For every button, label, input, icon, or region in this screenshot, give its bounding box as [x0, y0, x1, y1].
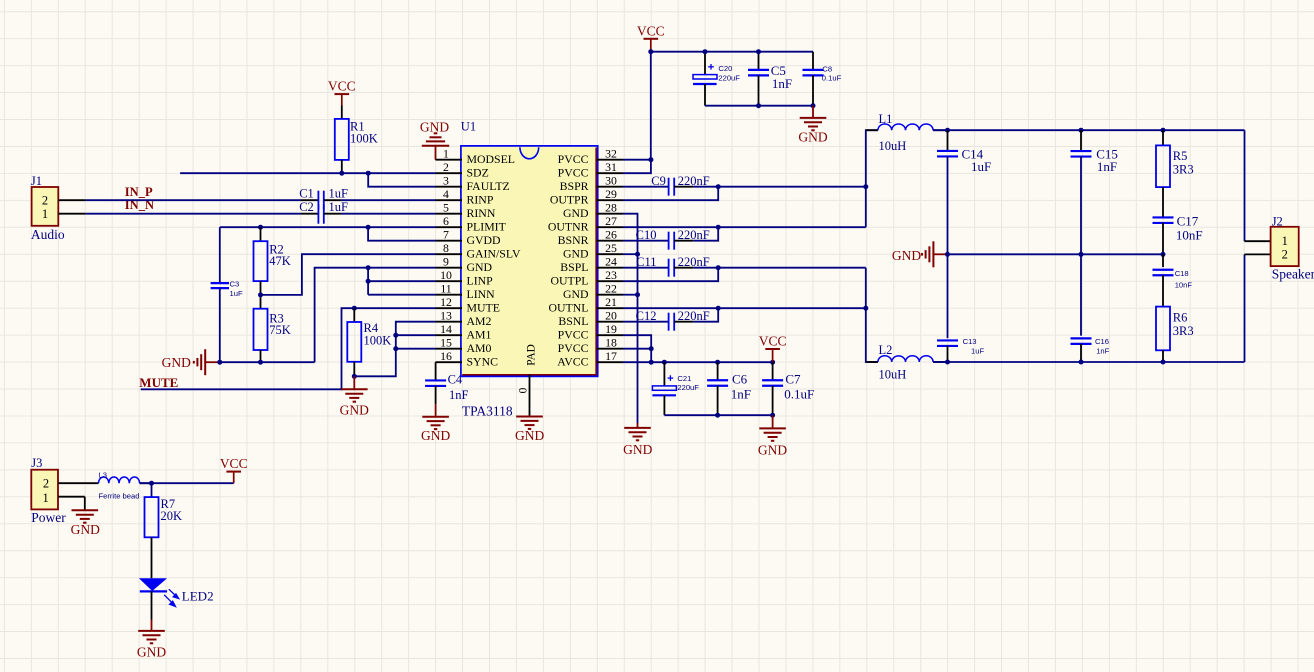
junction pin18 — [649, 346, 654, 351]
svg-text:15: 15 — [440, 336, 452, 350]
svg-text:1uF: 1uF — [971, 159, 991, 174]
pin 6 (PLIMIT) — [436, 214, 507, 233]
svg-text:GND: GND — [421, 428, 450, 443]
wire to J2 pin1 — [1245, 130, 1271, 241]
svg-text:AVCC: AVCC — [557, 354, 588, 368]
svg-text:100K: 100K — [350, 132, 378, 146]
wire GND row — [219, 361, 315, 363]
svg-text:2: 2 — [443, 160, 449, 174]
wire LINP-LINN tie — [367, 268, 369, 295]
wire R4 bottom — [353, 362, 355, 377]
svg-text:1: 1 — [42, 491, 48, 505]
junction C21 top — [662, 360, 667, 365]
junction C6 top — [715, 360, 720, 365]
wire AVCC row — [623, 361, 773, 363]
junction C13 bottom — [945, 360, 950, 365]
capacitor C17 — [1153, 213, 1203, 242]
wire AM1 row — [396, 334, 436, 336]
svg-text:J1: J1 — [31, 174, 42, 188]
wire R3 bottom — [260, 350, 262, 362]
svg-text:C13: C13 — [963, 337, 977, 346]
wire R2-R3 node — [260, 281, 262, 309]
svg-text:25: 25 — [605, 241, 617, 255]
svg-text:13: 13 — [440, 309, 452, 323]
svg-text:2: 2 — [1282, 247, 1288, 261]
svg-text:LED2: LED2 — [182, 589, 214, 604]
svg-text:2: 2 — [42, 193, 48, 207]
svg-text:U1: U1 — [461, 120, 476, 134]
wire LINP row — [368, 280, 435, 282]
junction R6 bottom — [1161, 360, 1166, 365]
svg-text:AM1: AM1 — [467, 327, 492, 341]
svg-text:10uH: 10uH — [879, 139, 907, 153]
svg-text:1nF: 1nF — [731, 387, 751, 402]
resistor R3 — [254, 309, 291, 350]
wire OUTNR row — [623, 226, 866, 228]
wire C17 to mid — [1162, 223, 1164, 254]
svg-text:R5: R5 — [1173, 149, 1188, 163]
svg-text:26: 26 — [605, 228, 617, 242]
wire C2 to RINN — [324, 213, 436, 215]
svg-text:GVDD: GVDD — [467, 233, 502, 247]
pin 1 (MODSEL) — [436, 147, 516, 166]
svg-text:4: 4 — [443, 187, 449, 201]
wire R7 top pin — [151, 483, 153, 497]
junction pin17 — [649, 360, 654, 365]
pin 24 (BSPL) — [560, 255, 623, 274]
wire AVCC return — [664, 414, 772, 416]
svg-text:0.1uF: 0.1uF — [822, 73, 842, 82]
svg-text:3R3: 3R3 — [1173, 162, 1194, 176]
svg-text:1: 1 — [42, 207, 48, 221]
inductor L2 — [867, 343, 947, 381]
pin 16 (SYNC) — [436, 349, 499, 368]
svg-text:17: 17 — [605, 349, 617, 363]
junction R7 top — [149, 481, 154, 486]
pin 28 (GND) — [563, 201, 623, 220]
svg-text:LINP: LINP — [467, 273, 494, 287]
junction OUTNR-C10 — [716, 225, 721, 230]
svg-text:GND: GND — [71, 522, 100, 537]
wire AM pins tie — [354, 322, 435, 377]
wire IN_P — [86, 199, 318, 201]
junction LINP — [366, 279, 371, 284]
svg-text:PVCC: PVCC — [558, 327, 589, 341]
svg-text:L2: L2 — [879, 343, 893, 357]
svg-text:VCC: VCC — [637, 23, 665, 38]
junction C9-OUTPR — [716, 184, 721, 189]
svg-text:LINN: LINN — [467, 287, 496, 301]
junction C7 top — [770, 360, 775, 365]
svg-text:18: 18 — [605, 336, 617, 350]
svg-text:1nF: 1nF — [1097, 159, 1117, 174]
svg-text:2: 2 — [43, 477, 49, 491]
pin 17 (AVCC) — [557, 349, 623, 368]
power VCC (R1) — [328, 79, 356, 106]
svg-text:10uH: 10uH — [879, 368, 907, 382]
capacitor C13 — [937, 254, 984, 362]
svg-text:MUTE: MUTE — [139, 375, 178, 390]
svg-text:GAIN/SLV: GAIN/SLV — [467, 246, 521, 260]
svg-text:C12: C12 — [636, 309, 657, 323]
pin 22 (GND) — [563, 282, 623, 301]
ground (PAD) — [515, 417, 544, 444]
svg-text:GND: GND — [623, 442, 652, 457]
wire MUTE — [141, 308, 436, 389]
svg-text:9: 9 — [443, 255, 449, 269]
svg-text:C9: C9 — [651, 174, 666, 188]
svg-text:1nF: 1nF — [772, 76, 792, 91]
wire SYNC to C4 — [435, 362, 437, 380]
pin 23 (OUTPL) — [550, 268, 623, 287]
ground (pin1 MODSEL) — [420, 119, 449, 145]
wire VCC rail — [651, 51, 813, 53]
capacitor C5 — [748, 52, 792, 106]
svg-text:16: 16 — [440, 349, 452, 363]
svg-text:J2: J2 — [1272, 214, 1283, 228]
svg-text:IN_P: IN_P — [125, 185, 153, 199]
junction R1-SDZ — [339, 171, 344, 176]
connector J2 — [1271, 214, 1314, 281]
svg-text:C10: C10 — [636, 228, 657, 242]
svg-text:23: 23 — [605, 268, 617, 282]
svg-text:28: 28 — [605, 201, 617, 215]
junction C11-OUTPL — [716, 265, 721, 270]
svg-text:GND: GND — [563, 206, 589, 220]
capacitor C18 — [1153, 254, 1193, 289]
svg-text:75K: 75K — [269, 323, 291, 337]
svg-text:OUTNR: OUTNR — [548, 219, 589, 233]
svg-text:GND: GND — [340, 402, 369, 417]
pin 11 (LINN) — [436, 282, 496, 301]
svg-text:8: 8 — [443, 241, 449, 255]
svg-text:BSNL: BSNL — [558, 314, 588, 328]
svg-text:1: 1 — [1282, 234, 1288, 248]
pin 12 (MUTE) — [436, 295, 500, 314]
svg-text:BSPL: BSPL — [560, 260, 588, 274]
wire L2 out — [933, 361, 1244, 363]
capacitor C15 — [1071, 130, 1118, 254]
resistor R5 — [1156, 130, 1194, 187]
pin 21 (OUTNL) — [549, 295, 623, 314]
capacitor C7 — [762, 362, 814, 415]
svg-text:20K: 20K — [161, 509, 183, 523]
pin 26 (BSNR) — [558, 228, 623, 247]
svg-text:VCC: VCC — [759, 334, 787, 349]
svg-text:GND: GND — [758, 442, 787, 457]
svg-text:C1: C1 — [299, 187, 314, 201]
pin 4 (RINP) — [436, 187, 494, 206]
wire AM0 row — [396, 348, 436, 350]
wire FAULTZ jog — [368, 173, 435, 187]
svg-text:20: 20 — [605, 309, 617, 323]
wire R4 top pin — [353, 308, 355, 322]
svg-text:C17: C17 — [1177, 213, 1199, 228]
wire decoupling return — [705, 105, 813, 107]
pin 13 (AM2) — [436, 309, 492, 328]
junction C6 bottom — [715, 413, 720, 418]
pin 29 (OUTPR) — [550, 187, 623, 206]
svg-text:32: 32 — [605, 147, 617, 161]
wire node to GAIN — [261, 254, 436, 295]
svg-text:30: 30 — [605, 174, 617, 188]
capacitor C6 — [707, 362, 751, 415]
junction R2-R3 — [258, 292, 263, 297]
ground (C4) — [421, 417, 450, 444]
wire IC GND net — [623, 214, 638, 423]
svg-text:11: 11 — [440, 282, 451, 296]
svg-text:RINP: RINP — [467, 192, 494, 206]
svg-text:220uF: 220uF — [718, 73, 740, 82]
svg-text:C7: C7 — [785, 372, 801, 387]
wire VCC to R1 — [341, 106, 343, 119]
svg-text:PVCC: PVCC — [558, 341, 589, 355]
junction OUTP rail — [863, 184, 868, 189]
svg-text:MODSEL: MODSEL — [467, 152, 516, 166]
wire OUTPL net — [623, 268, 866, 282]
wire C12 to OUTNL — [693, 308, 718, 322]
pin 31 (PVCC) — [558, 160, 623, 179]
svg-text:21: 21 — [605, 295, 617, 309]
wire LED cathode — [151, 591, 153, 619]
svg-text:Ferrite bead: Ferrite bead — [99, 492, 140, 501]
pin 7 (GVDD) — [436, 228, 502, 247]
svg-text:12: 12 — [440, 295, 452, 309]
pin 15 (AM0) — [436, 336, 492, 355]
svg-text:C16: C16 — [1095, 337, 1109, 346]
wire C18 to R6 — [1162, 275, 1164, 306]
svg-text:24: 24 — [605, 255, 617, 269]
svg-text:GND: GND — [798, 130, 827, 145]
svg-text:100K: 100K — [364, 333, 392, 347]
svg-text:10nF: 10nF — [1176, 227, 1203, 242]
svg-text:GND: GND — [467, 260, 493, 274]
svg-text:OUTPR: OUTPR — [550, 192, 589, 206]
wire PVCC tie — [623, 160, 651, 174]
svg-text:J3: J3 — [31, 456, 42, 470]
junction AM1 — [393, 333, 398, 338]
pin 14 (AM1) — [436, 322, 492, 341]
resistor R4 — [347, 321, 391, 362]
wire L3 to VCC — [140, 482, 234, 484]
IC name TPA3118 — [462, 403, 513, 418]
pin 25 (GND) — [563, 241, 623, 260]
wire PVCC tie 19-18-17 — [623, 335, 651, 362]
capacitor C14 — [937, 130, 991, 254]
junction OUTN rail — [863, 306, 868, 311]
resistor R2 — [254, 241, 291, 281]
wire GND to pin1 — [435, 146, 437, 160]
svg-text:GND: GND — [420, 119, 449, 134]
junction C7 bottom — [770, 413, 775, 418]
wire C3 to GND row — [219, 288, 221, 362]
svg-text:GND: GND — [563, 246, 589, 260]
svg-text:PVCC: PVCC — [558, 165, 589, 179]
svg-text:GND: GND — [162, 355, 191, 370]
svg-text:10nF: 10nF — [1175, 280, 1193, 289]
capacitor C1 — [299, 187, 348, 210]
svg-text:PVCC: PVCC — [558, 152, 589, 166]
svg-text:31: 31 — [605, 160, 617, 174]
inductor L1 — [867, 112, 947, 153]
ferrite bead L3 — [99, 471, 151, 501]
svg-text:3R3: 3R3 — [1173, 324, 1194, 338]
pin 20 (BSNL) — [558, 309, 623, 328]
power VCC (AVCC) — [759, 334, 787, 363]
capacitor C9 — [623, 174, 710, 196]
svg-text:Speaker: Speaker — [1272, 267, 1314, 282]
ground (LED) — [137, 620, 166, 660]
IC U1 body — [461, 120, 598, 377]
capacitor C12 — [623, 309, 710, 331]
svg-text:SYNC: SYNC — [467, 354, 499, 368]
wire GND to pin9 — [315, 268, 436, 363]
pin 10 (LINP) — [436, 268, 494, 287]
svg-text:OUTPL: OUTPL — [550, 273, 588, 287]
svg-text:SDZ: SDZ — [467, 165, 489, 179]
power VCC (main) — [637, 23, 665, 51]
pin 2 stub J1 — [58, 199, 86, 201]
wire R5 to C17 — [1162, 187, 1164, 217]
wire LINN row — [368, 294, 435, 296]
pin 8 (GAIN/SLV) — [436, 241, 521, 260]
pin 1 stub J3 — [58, 497, 85, 511]
svg-text:Audio: Audio — [31, 227, 65, 242]
junction C14 top — [945, 128, 950, 133]
svg-text:FAULTZ: FAULTZ — [467, 179, 510, 193]
svg-text:TPA3118: TPA3118 — [462, 403, 513, 418]
wire SDZ — [180, 172, 435, 174]
svg-text:1uF: 1uF — [230, 289, 243, 298]
junction R5 top — [1161, 128, 1166, 133]
svg-text:AM0: AM0 — [467, 341, 492, 355]
svg-text:29: 29 — [605, 187, 617, 201]
wire OUTN to L2 — [866, 268, 878, 362]
wire C3 drop — [219, 227, 221, 283]
junction mid C14 — [945, 252, 950, 257]
capacitor C4 — [425, 373, 468, 403]
junction SDZ-FAULTZ — [366, 171, 371, 176]
junction GVDD branch — [366, 225, 371, 230]
svg-text:GND: GND — [563, 287, 589, 301]
junction C5 top — [756, 49, 761, 54]
wire R2 top pin — [260, 227, 262, 241]
junction mid C15 — [1079, 252, 1084, 257]
svg-text:27: 27 — [605, 214, 617, 228]
wire R1 to SDZ — [341, 160, 343, 173]
svg-text:C2: C2 — [299, 200, 314, 214]
ground (analog ref) — [162, 349, 219, 375]
svg-text:10: 10 — [440, 268, 452, 282]
ground (C7) — [758, 415, 787, 457]
junction VCC stub — [648, 49, 653, 54]
wire C4 to GND — [435, 386, 437, 417]
svg-text:0: 0 — [518, 387, 530, 393]
svg-text:5: 5 — [443, 201, 449, 215]
capacitor C8 — [803, 52, 842, 106]
svg-text:1nF: 1nF — [449, 388, 469, 402]
net label IN_P — [125, 185, 153, 199]
capacitor C10 — [623, 228, 710, 250]
resistor R1 — [335, 119, 378, 160]
junction C5 bottom — [756, 103, 761, 108]
wire to J2 pin2 — [1245, 254, 1271, 362]
svg-text:14: 14 — [440, 322, 452, 336]
wire IN_N — [86, 213, 318, 215]
connector J1 — [31, 174, 65, 242]
pin 1 stub J1 — [58, 213, 86, 215]
pin 0 (PAD) — [518, 344, 538, 416]
svg-text:47K: 47K — [269, 254, 291, 268]
svg-text:GND: GND — [892, 248, 921, 263]
pin 27 (OUTNR) — [548, 214, 623, 233]
svg-text:MUTE: MUTE — [467, 300, 500, 314]
svg-text:22: 22 — [605, 282, 617, 296]
wire C1 to RINP — [324, 199, 436, 201]
svg-text:C6: C6 — [732, 372, 748, 387]
pin 3 (FAULTZ) — [436, 174, 510, 193]
svg-text:L1: L1 — [879, 112, 893, 126]
svg-text:C18: C18 — [1175, 269, 1189, 278]
wire VCC to PVCC — [650, 52, 652, 160]
pin 2 (SDZ) — [436, 160, 489, 179]
svg-text:C20: C20 — [718, 64, 732, 73]
pin 2 stub J3 — [58, 482, 99, 484]
pin 32 (PVCC) — [558, 147, 623, 166]
svg-text:C3: C3 — [230, 280, 240, 289]
svg-text:BSPR: BSPR — [560, 179, 589, 193]
pin 9 (GND) — [436, 255, 493, 274]
svg-text:3: 3 — [443, 174, 449, 188]
LED LED2 — [139, 578, 214, 606]
wire OUTP to L1 — [866, 130, 878, 227]
junction GND pin22 — [635, 292, 640, 297]
junction C15 top — [1079, 128, 1084, 133]
resistor R6 — [1156, 307, 1194, 351]
wire PLIMIT net — [220, 226, 436, 228]
svg-text:VCC: VCC — [328, 79, 356, 94]
svg-text:GND: GND — [137, 645, 166, 660]
ground (C8) — [798, 106, 827, 145]
pin 5 (RINN) — [436, 201, 496, 220]
svg-text:BSNR: BSNR — [558, 233, 589, 247]
resistor R7 — [145, 497, 183, 538]
pin 18 (PVCC) — [558, 336, 623, 355]
svg-text:R6: R6 — [1173, 310, 1188, 324]
junction mid C17 — [1161, 252, 1166, 257]
ground (R4) — [340, 376, 369, 417]
wire GVDD jog — [368, 227, 435, 241]
svg-text:7: 7 — [443, 228, 449, 242]
svg-text:L3: L3 — [99, 471, 107, 480]
svg-text:220uF: 220uF — [677, 383, 699, 392]
capacitor C20 — [693, 52, 740, 106]
capacitor C11 — [623, 255, 710, 277]
svg-text:1nF: 1nF — [1096, 347, 1109, 356]
wire R7 to LED — [151, 537, 153, 578]
ground (filter mid) — [892, 241, 948, 267]
wire OUTNL row — [623, 307, 866, 309]
pin 19 (PVCC) — [558, 322, 623, 341]
svg-text:AM2: AM2 — [467, 314, 492, 328]
svg-text:Power: Power — [31, 510, 66, 525]
junction C20 top — [703, 49, 708, 54]
capacitor C21 — [652, 362, 699, 415]
junction R4 bottom — [352, 374, 357, 379]
net label MUTE — [139, 375, 178, 390]
ground (J3) — [71, 510, 100, 537]
junction C16 bottom — [1079, 360, 1084, 365]
